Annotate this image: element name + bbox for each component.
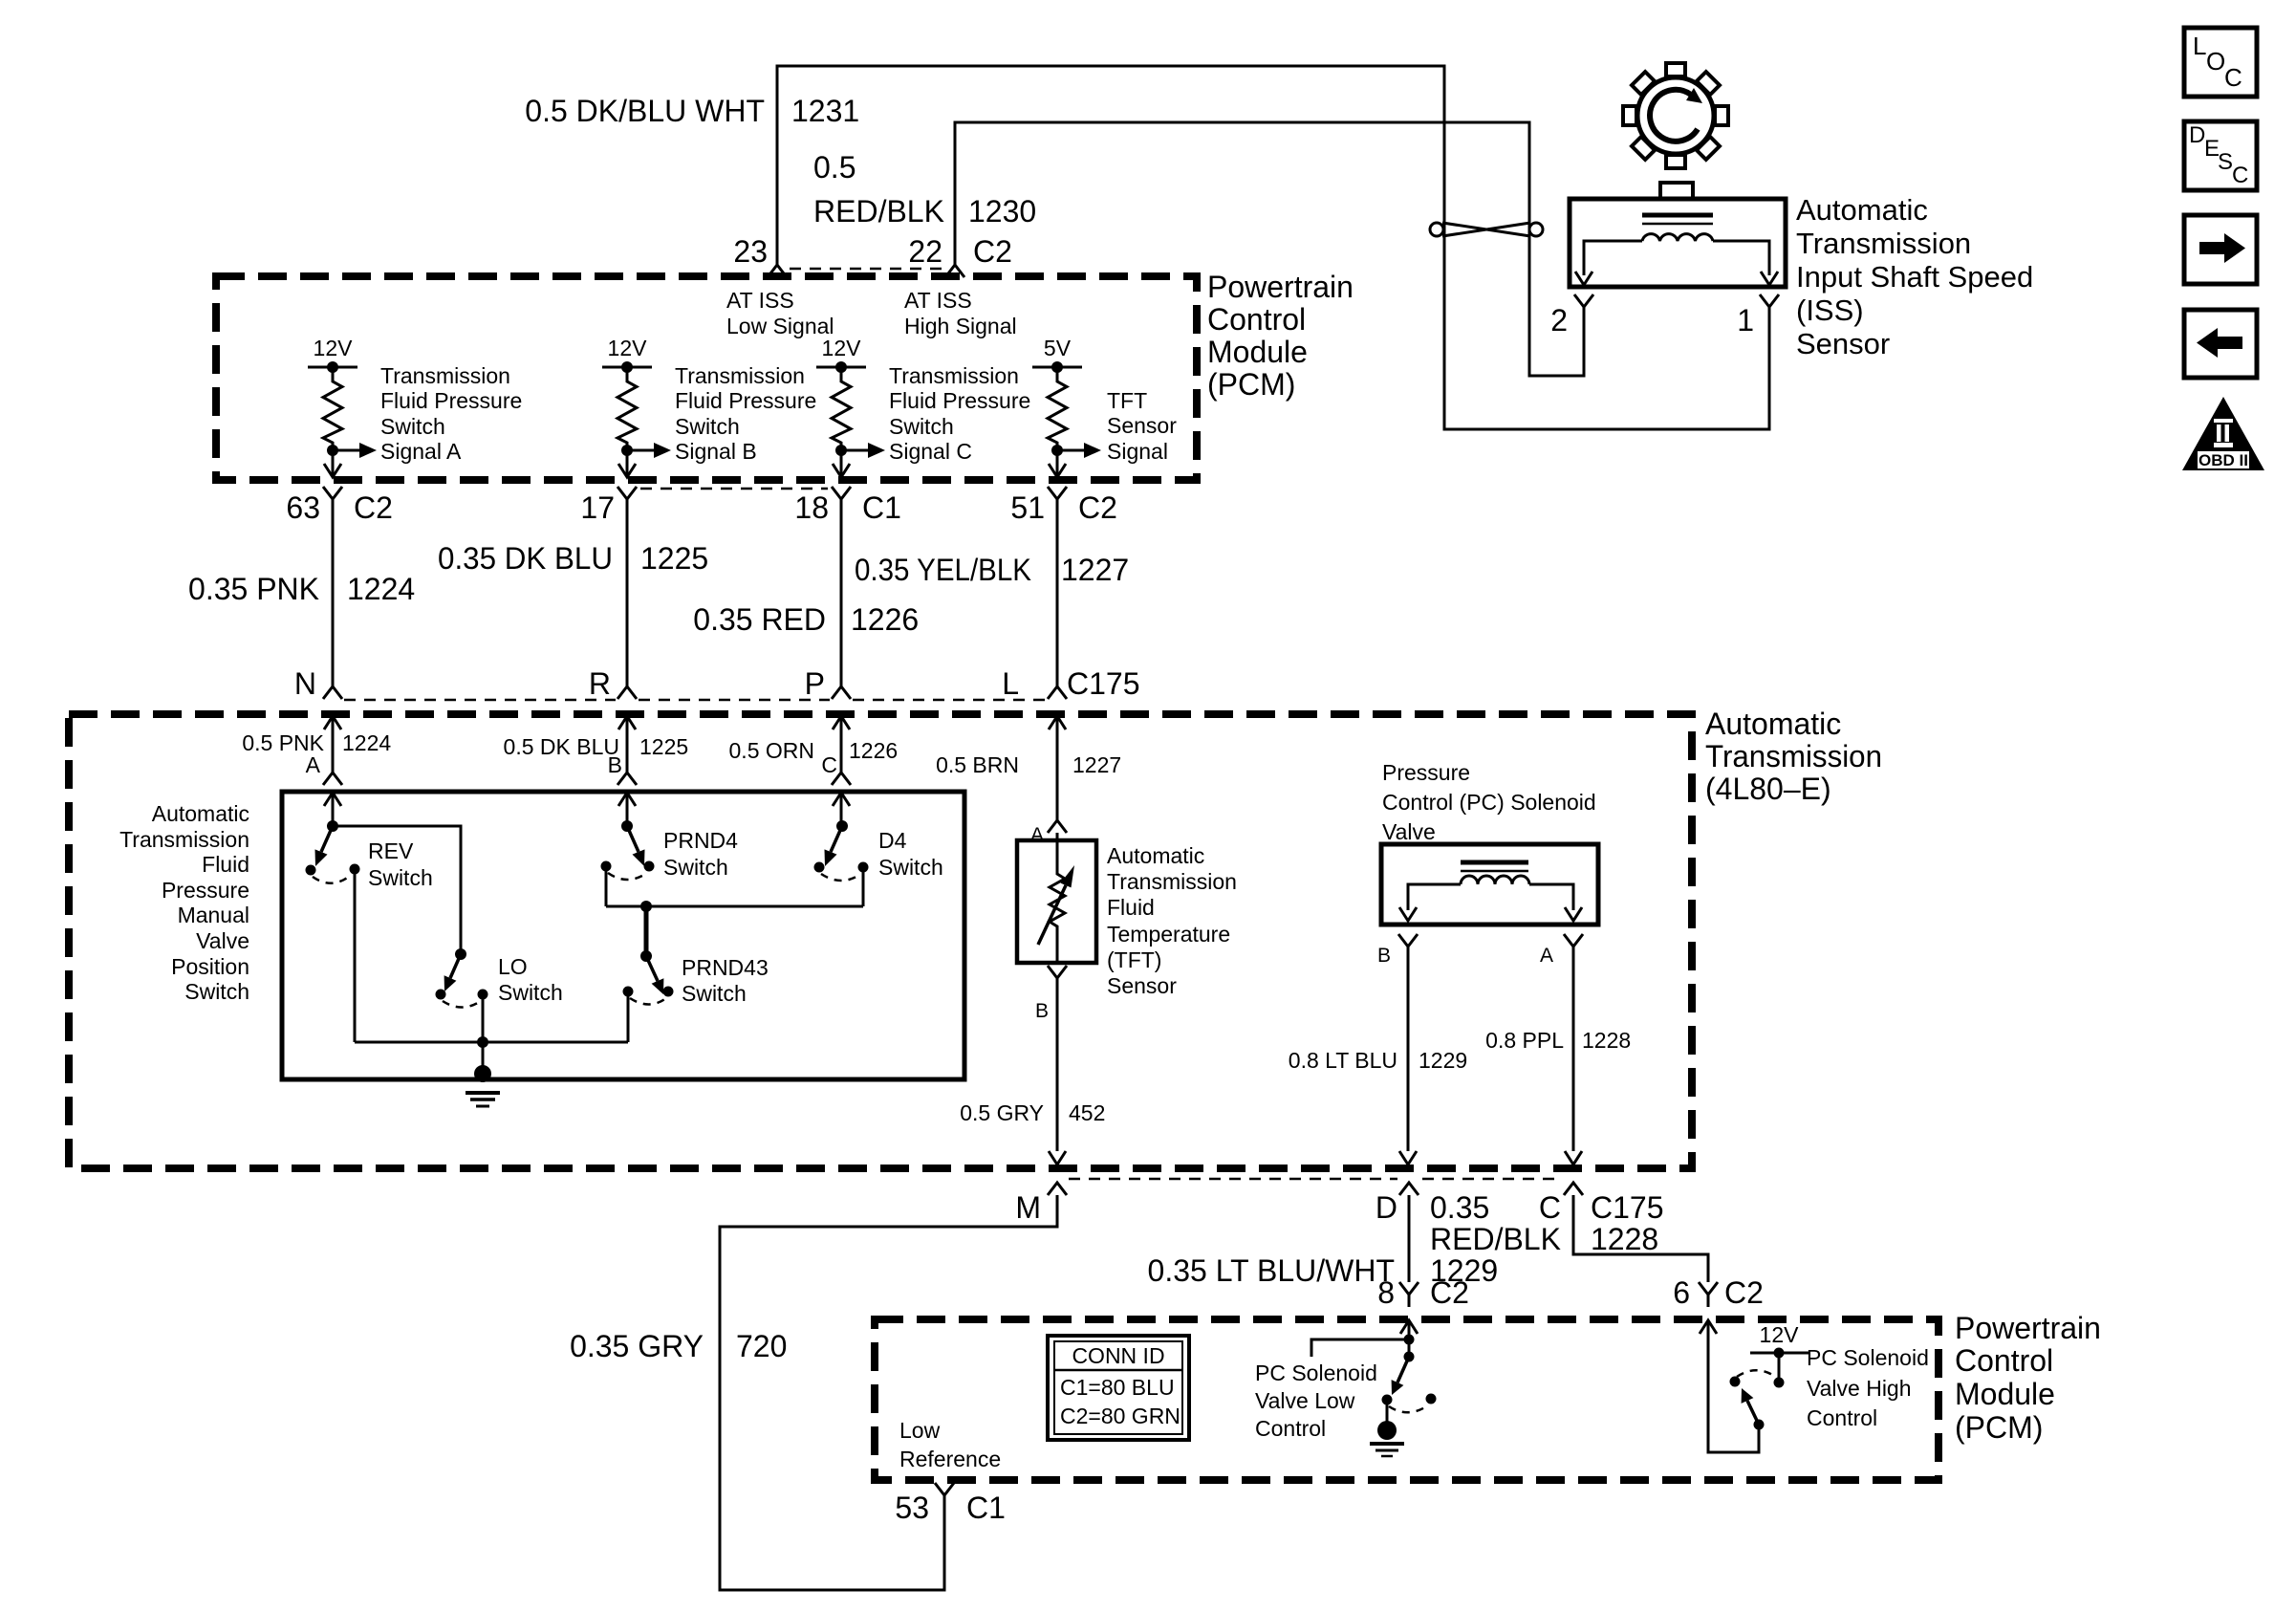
svg-text:A: A [1540,945,1553,967]
svg-text:C1: C1 [862,490,901,525]
svg-text:C1=80 BLU: C1=80 BLU [1060,1375,1175,1400]
svg-text:1226: 1226 [849,738,898,763]
svg-text:Valve: Valve [1382,819,1436,844]
back arrow icon [2184,310,2257,378]
svg-text:L: L [1002,666,1019,701]
svg-text:51: 51 [1010,490,1045,525]
svg-text:C: C [2232,163,2248,188]
PC Solenoid Valve Low Control switch [1400,1320,1418,1334]
signal tap junction (TFT) [1051,445,1063,456]
svg-text:REV: REV [368,838,414,863]
pin 2 [1574,294,1593,319]
svg-text:Powertrain: Powertrain [1207,270,1354,304]
wire entry arrow [618,716,636,729]
svg-text:A: A [306,752,321,777]
svg-text:Signal: Signal [1107,439,1168,464]
Automatic Transmission (4L80-E) box [69,714,1692,1168]
svg-text:D: D [2189,122,2205,148]
svg-text:Low Signal: Low Signal [726,314,834,338]
svg-text:Signal A: Signal A [380,439,462,464]
wire LO contact to ground bus [482,999,485,1042]
pin 1 [1760,294,1779,319]
wire [626,512,629,686]
svg-text:(PCM): (PCM) [1207,367,1295,402]
svg-text:Switch: Switch [184,979,249,1004]
svg-text:D: D [1375,1190,1397,1225]
svg-text:0.35 DK BLU: 0.35 DK BLU [438,541,613,576]
svg-text:Valve High: Valve High [1807,1376,1912,1401]
thin connector dash pins 17-18 [640,488,828,490]
svg-text:Sensor: Sensor [1107,413,1177,438]
ground at PC solenoid low [1386,1404,1389,1425]
wire entry arrow [833,716,850,729]
ISS coil [1642,234,1713,241]
wire 1226 inside [840,716,843,773]
wire 720 from M to pin 53 [720,1195,1057,1590]
pin B (TFT) [1048,966,1067,991]
svg-text:1227: 1227 [1072,752,1121,777]
svg-text:(PCM): (PCM) [1955,1410,2043,1445]
svg-text:17: 17 [580,490,615,525]
thin connector dash C175 [344,699,616,702]
ISS sensor tab [1660,183,1693,199]
wire PRND4 left contact to bus [605,871,608,906]
entry arrow into switch box [618,793,636,806]
ISS lead pin 1 [1713,241,1769,275]
svg-text:Switch: Switch [368,865,433,890]
svg-text:0.35 YEL/BLK: 0.35 YEL/BLK [855,553,1031,587]
svg-text:2: 2 [1550,303,1568,337]
svg-text:Transmission: Transmission [380,363,510,388]
svg-text:OBD II: OBD II [2199,451,2248,469]
svg-text:P: P [805,666,825,701]
TFT Sensor box [1017,840,1096,963]
svg-text:6: 6 [1673,1275,1690,1310]
svg-text:0.35 PNK: 0.35 PNK [188,572,319,606]
svg-text:C2: C2 [1724,1275,1764,1310]
svg-text:Transmission: Transmission [119,827,249,852]
wire [332,512,335,686]
signal tap junction (Signal A) [327,445,338,456]
wire C to pin 6 [1573,1195,1708,1282]
svg-text:1225: 1225 [640,541,708,576]
svg-text:Fluid Pressure: Fluid Pressure [380,388,522,413]
svg-text:RED/BLK: RED/BLK [813,194,944,229]
svg-text:M: M [1015,1190,1041,1225]
wire 1227 inside [1056,716,1059,820]
svg-text:1231: 1231 [791,94,859,128]
pin 6 C2 [1699,1282,1718,1307]
svg-text:AT ISS: AT ISS [904,288,972,313]
svg-text:452: 452 [1069,1100,1105,1125]
pin 51 at PCM box edge [1049,464,1066,477]
svg-text:S: S [2218,149,2233,175]
svg-text:1224: 1224 [342,730,391,755]
svg-text:Fluid Pressure: Fluid Pressure [889,388,1030,413]
ISS Sensor box [1570,199,1786,287]
svg-text:(TFT): (TFT) [1107,947,1161,972]
svg-text:Switch: Switch [498,980,563,1005]
svg-text:Switch: Switch [380,414,445,439]
LOC icon [2184,28,2257,97]
thermistor element [1050,840,1065,963]
svg-text:Control: Control [1807,1405,1877,1430]
svg-text:Reference: Reference [899,1447,1001,1471]
resistor pull-up (Signal C) [832,367,851,475]
svg-text:Fluid: Fluid [1107,895,1155,920]
svg-text:Automatic: Automatic [152,801,249,826]
svg-text:0.5 ORN: 0.5 ORN [729,738,814,763]
thin connector dash C175 bottom [1069,1178,1397,1181]
svg-text:Automatic: Automatic [1796,193,1928,227]
svg-text:Powertrain: Powertrain [1955,1311,2101,1345]
svg-text:Control (PC) Solenoid: Control (PC) Solenoid [1382,790,1596,815]
svg-text:(4L80–E): (4L80–E) [1705,772,1831,806]
resistor pull-up (TFT) [1048,367,1067,475]
svg-text:Automatic: Automatic [1705,707,1841,741]
svg-text:720: 720 [736,1329,787,1363]
svg-text:Control: Control [1255,1416,1326,1441]
REV Switch [327,820,338,832]
ISS lead pin 2 [1584,241,1642,275]
svg-text:1: 1 [1737,303,1754,337]
svg-text:TFT: TFT [1107,388,1147,413]
svg-text:C1: C1 [966,1491,1006,1525]
ISS reluctor gear [1637,77,1714,154]
svg-text:CONN ID: CONN ID [1072,1343,1164,1368]
solenoid coil [1461,876,1529,884]
svg-text:0.35: 0.35 [1430,1190,1489,1225]
svg-text:Input Shaft Speed: Input Shaft Speed [1796,260,2033,294]
pin 18 at PCM box edge [833,464,850,477]
svg-text:5V: 5V [1044,336,1072,360]
wire 1231 0.5 DK/BLU WHT: PCM pin 23 to ISS pin 1 [777,66,1769,429]
wire [1056,512,1059,686]
svg-text:8: 8 [1377,1275,1395,1310]
svg-text:Pressure: Pressure [1382,760,1470,785]
svg-text:R: R [589,666,611,701]
wire [840,512,843,686]
svg-text:63: 63 [286,490,320,525]
svg-text:PRND43: PRND43 [682,955,769,980]
wire 1229 [1407,959,1410,1151]
svg-text:Switch: Switch [878,855,943,880]
bus PRND4/D4 [606,905,863,908]
svg-text:Transmission: Transmission [889,363,1019,388]
svg-text:0.8 LT BLU: 0.8 LT BLU [1289,1048,1397,1073]
svg-text:Pressure: Pressure [162,878,249,903]
svg-text:PRND4: PRND4 [663,828,738,853]
svg-text:1225: 1225 [639,734,688,759]
svg-text:B: B [1035,1000,1049,1022]
svg-text:Control: Control [1207,302,1306,337]
svg-text:1224: 1224 [347,572,415,606]
svg-text:Signal B: Signal B [675,439,757,464]
wire bus to PRND43 [644,906,649,956]
svg-text:22: 22 [908,234,942,269]
wire 1228 [1572,959,1575,1151]
wire D to pin 8 [1408,1195,1411,1282]
OBD II icon [2182,397,2264,470]
svg-text:(ISS): (ISS) [1796,294,1864,327]
svg-text:High Signal: High Signal [904,314,1017,338]
svg-text:Switch: Switch [663,855,728,880]
svg-text:53: 53 [895,1491,929,1525]
svg-text:D4: D4 [878,828,907,853]
thin connector dash pins 23-22 [790,268,944,271]
svg-text:Switch: Switch [675,414,740,439]
svg-text:Module: Module [1207,335,1308,369]
svg-text:Valve: Valve [196,928,249,953]
wire PRND43 left contact to ground bus [627,996,630,1042]
svg-text:B: B [1377,945,1391,967]
signal tap junction (Signal C) [835,445,847,456]
svg-text:C2: C2 [1078,490,1117,525]
ground [474,1065,491,1082]
ISS core [1642,213,1713,218]
Powertrain Control Module (PCM) box (top) [216,276,1197,480]
svg-text:Manual: Manual [178,903,249,927]
svg-text:C: C [1539,1190,1561,1225]
forward arrow icon [2184,215,2257,284]
svg-text:0.5 BRN: 0.5 BRN [936,752,1019,777]
svg-text:B: B [608,752,622,777]
svg-text:Module: Module [1955,1377,2055,1411]
svg-text:C2: C2 [973,234,1012,269]
CONN ID table [1048,1336,1189,1440]
PC Solenoid Valve High Control switch [1700,1320,1717,1334]
signal tap junction (Signal B) [621,445,633,456]
svg-text:Sensor: Sensor [1796,327,1890,360]
entry arrow into switch box [324,793,341,806]
svg-text:C2: C2 [1430,1275,1469,1310]
wire entry arrow [324,716,341,729]
resistor pull-up (Signal A) [323,367,342,475]
svg-text:1228: 1228 [1591,1222,1658,1256]
coil lead B [1408,884,1461,910]
svg-text:12V: 12V [1760,1322,1800,1347]
svg-text:0.5 GRY: 0.5 GRY [960,1100,1044,1125]
svg-text:Switch: Switch [682,981,747,1006]
svg-text:0.35 GRY: 0.35 GRY [570,1329,704,1363]
svg-text:Valve Low: Valve Low [1255,1388,1355,1413]
svg-text:Sensor: Sensor [1107,973,1177,998]
svg-text:Position: Position [171,954,249,979]
svg-text:A: A [1030,824,1044,846]
svg-text:0.5 DK BLU: 0.5 DK BLU [504,734,619,759]
wire REV contact to ground bus [354,874,357,1042]
pin B (solenoid) [1398,934,1418,959]
twisted pair symbol [1442,223,1530,236]
svg-text:C175: C175 [1591,1190,1664,1225]
svg-text:Control: Control [1955,1343,2053,1378]
D4 Switch [836,820,848,832]
svg-text:PC Solenoid: PC Solenoid [1255,1361,1377,1385]
svg-text:RED/BLK: RED/BLK [1430,1222,1561,1256]
wire 1224 inside [332,716,335,773]
svg-text:18: 18 [794,490,829,525]
svg-text:C2=80 GRN: C2=80 GRN [1060,1404,1180,1428]
svg-text:0.35 RED: 0.35 RED [693,602,826,637]
Powertrain Control Module (PCM) box (bottom) [875,1319,1939,1480]
svg-text:AT ISS: AT ISS [726,288,794,313]
svg-text:Transmission: Transmission [1796,227,1971,260]
wire 452 [1056,991,1059,1151]
svg-text:1226: 1226 [851,602,919,637]
pin 63 at PCM box edge [324,464,341,477]
entry arrow into switch box [833,793,850,806]
pin 17 at PCM box edge [618,464,636,477]
svg-text:Temperature: Temperature [1107,922,1230,947]
pin 8 C2 [1399,1282,1419,1307]
svg-text:C175: C175 [1067,666,1140,701]
Manual Valve Position Switch box [282,792,964,1079]
svg-text:12V: 12V [822,336,862,360]
ground bus [355,1041,628,1044]
svg-text:Transmission: Transmission [675,363,805,388]
wire D4 right contact to bus [862,872,865,906]
solenoid core [1461,860,1528,865]
svg-text:Fluid Pressure: Fluid Pressure [675,388,816,413]
svg-text:1230: 1230 [968,194,1036,229]
svg-text:0.5 DK/BLU WHT: 0.5 DK/BLU WHT [525,94,765,128]
svg-text:Transmission: Transmission [1107,869,1237,894]
svg-text:0.35 LT BLU/WHT: 0.35 LT BLU/WHT [1148,1253,1395,1288]
svg-text:1228: 1228 [1582,1028,1631,1053]
svg-text:N: N [294,666,316,701]
svg-text:Switch: Switch [889,414,954,439]
svg-text:0.8 PPL: 0.8 PPL [1485,1028,1564,1053]
svg-text:Transmission: Transmission [1705,739,1882,773]
svg-text:Signal C: Signal C [889,439,972,464]
wire 1225 inside [626,716,629,773]
svg-text:0.5: 0.5 [813,150,856,185]
svg-text:L: L [2193,32,2206,60]
wire entry arrow [1049,716,1066,729]
pin A (solenoid) [1564,934,1583,959]
svg-text:C2: C2 [354,490,393,525]
LO Switch [455,948,466,960]
PRND4 Switch [621,820,633,832]
PC Solenoid Valve box [1381,844,1598,925]
svg-text:23: 23 [733,234,768,269]
svg-text:Low: Low [899,1418,941,1443]
pin 53 C1 [935,1483,954,1508]
svg-text:12V: 12V [314,336,354,360]
svg-text:O: O [2206,47,2225,76]
PRND43 Switch [640,950,652,962]
svg-text:12V: 12V [608,336,648,360]
wire 1230 0.5 RED/BLK: PCM pin 22 to ISS pin 2 [955,122,1584,376]
DESC icon [2184,121,2257,190]
12V supply at high control [1778,1353,1781,1378]
coil lead A [1529,884,1573,910]
svg-text:C: C [821,752,837,777]
svg-text:1229: 1229 [1419,1048,1467,1073]
resistor pull-up (Signal B) [617,367,637,475]
svg-text:C: C [2224,63,2242,92]
svg-text:Automatic: Automatic [1107,843,1204,868]
svg-text:LO: LO [498,954,528,979]
svg-text:PC Solenoid: PC Solenoid [1807,1345,1929,1370]
svg-text:1227: 1227 [1061,553,1129,587]
wire REV common to LO switch [333,826,461,954]
svg-text:Fluid: Fluid [202,852,249,877]
